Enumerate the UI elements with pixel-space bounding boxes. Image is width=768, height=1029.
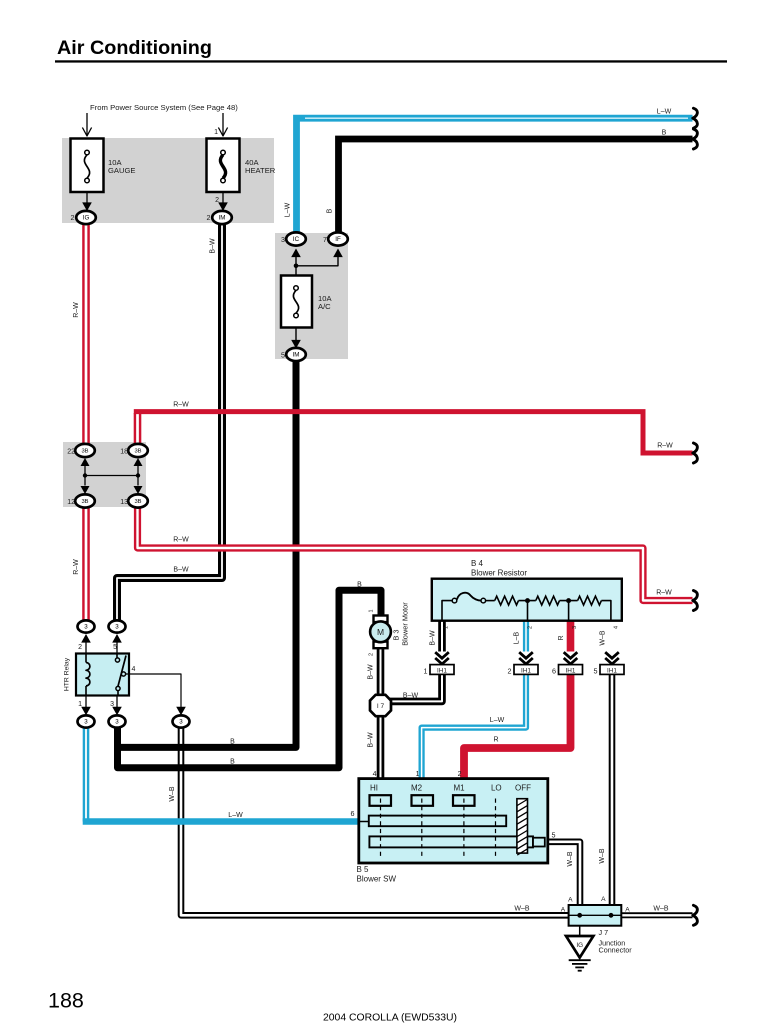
svg-text:2: 2 [369,653,375,656]
svg-text:IM: IM [293,352,300,359]
svg-text:2: 2 [215,197,219,204]
resistor internal circuit [442,601,452,621]
connector 2 IH1 with chevron [519,652,533,658]
svg-text:A: A [625,907,630,914]
svg-text:2: 2 [207,213,211,222]
svg-text:R: R [558,635,565,640]
fuse 40A HEATER [207,139,240,193]
connector oval 2 IG [76,211,96,224]
svg-text:13: 13 [120,499,128,506]
junction node below IC [294,264,299,269]
wire and arrow into connector IM of A/C fuse [295,328,297,341]
wire B thick: top from page brace to A/C fuse IF [339,139,693,232]
svg-text:6: 6 [351,809,355,818]
connector oval 7 IF [333,249,343,258]
svg-text:IH1: IH1 [521,667,531,674]
svg-text:B–W: B–W [430,630,437,646]
svg-text:OFF: OFF [515,784,531,793]
svg-text:IF: IF [335,236,341,243]
page brace L-W [693,108,698,128]
wire B-W I7 down to blower SW pin4 (HI) [377,716,385,780]
wire B thick: relay pin3 to blower motor [118,590,382,768]
wire W-B from J7 to right page brace [621,912,692,918]
svg-text:6: 6 [552,666,556,675]
svg-text:W–B: W–B [169,786,176,802]
page brace R-W upper [693,443,698,463]
svg-text:R–W: R–W [73,302,80,318]
connector oval 12 3B [75,494,95,507]
svg-text:B: B [357,582,362,589]
svg-text:B 5: B 5 [357,865,370,874]
svg-text:Blower SW: Blower SW [357,875,397,884]
page brace R-W lower [693,591,698,611]
svg-text:2: 2 [71,213,75,222]
svg-text:L–W: L–W [657,109,672,116]
svg-text:12: 12 [67,499,75,506]
svg-text:R–W: R–W [173,537,189,544]
svg-text:L–W: L–W [228,812,243,819]
svg-text:7: 7 [323,235,327,244]
svg-text:L–W: L–W [285,202,292,217]
fuse 10A GAUGE [71,139,104,193]
blower SW contacts [370,795,392,806]
svg-text:IH1: IH1 [566,667,576,674]
gray block: connector 3B block [63,442,146,507]
svg-text:HTR Relay: HTR Relay [64,657,71,691]
wire L-W cyan: IH1-2 down-left-down to blower SW pin1 (M2) [422,674,526,779]
svg-text:3: 3 [179,719,183,726]
gray block: power source fuse box [62,138,274,223]
svg-text:188: 188 [48,989,84,1013]
svg-text:R–W: R–W [657,443,673,450]
connector 1 IH1 with chevron [435,652,449,658]
svg-text:W–B: W–B [599,848,606,864]
connector oval 3 IC [291,249,301,258]
connector oval 2 IM [212,211,232,224]
svg-text:22: 22 [67,448,75,455]
svg-text:5: 5 [594,666,598,675]
svg-text:3: 3 [84,719,88,726]
wire L-B cyan: blower resistor pin2 to IH1-2 chevron [523,621,529,652]
svg-text:IC: IC [293,236,300,243]
wire pin 2 and arrow into connector IM [222,192,224,203]
relay pin4 wire to connector oval 3 [126,674,181,707]
wire B-W blower motor to I7 [377,648,385,696]
svg-text:J 7: J 7 [599,928,609,937]
svg-text:3: 3 [281,235,285,244]
svg-text:3B: 3B [134,449,141,455]
junction connector I 7 octagon [370,695,391,716]
svg-text:IG: IG [83,215,90,222]
svg-text:2: 2 [458,771,462,778]
relay pin3 wire and oval [116,696,118,708]
svg-text:M2: M2 [411,784,423,793]
wire R-W red: connector 3B-12 down to relay pin2 [82,508,90,621]
svg-text:4: 4 [132,666,136,673]
wire L-W cyan: relay pin1 down and right to blower SW pin6 [83,726,90,822]
svg-text:W–B: W–B [567,851,574,867]
svg-text:3: 3 [84,624,88,631]
svg-text:L–W: L–W [490,717,505,724]
svg-text:2: 2 [528,626,534,629]
relay switch contact [116,654,118,658]
wire W-B from blower resistor pin4 via IH1-5 down to J7 [609,674,616,915]
svg-text:B: B [230,759,235,766]
relay pin1 wire and oval [85,696,87,708]
wire R red: blower resistor pin3 to IH1-6 chevron [567,621,575,652]
svg-text:R–W: R–W [656,590,672,597]
wire R-W red stub below 3B-13 and horizontal lower to right page brace [138,508,693,601]
svg-text:R: R [493,737,498,744]
svg-text:Blower Resistor: Blower Resistor [471,569,527,578]
wire B-W blower resistor pin1 down to IH1-1 chevron [438,621,446,652]
wire R-W red: fuse GAUGE (IG) down to connector 3B-22 [82,224,90,444]
svg-text:B–W: B–W [403,693,419,700]
svg-text:4: 4 [614,626,620,629]
wire W-B from HTR relay pin4 to J7 (junction connector) [181,726,569,915]
svg-text:B–W: B–W [173,567,189,574]
svg-text:A: A [601,896,606,903]
svg-text:R–W: R–W [173,402,189,409]
svg-text:1: 1 [444,626,450,629]
svg-text:W–B: W–B [514,906,530,913]
ground symbol [569,959,591,961]
svg-text:W–B: W–B [600,630,607,646]
svg-text:3: 3 [115,719,119,726]
blower SW pin5 stub [533,838,545,847]
svg-text:L–B: L–B [514,631,521,644]
connector 5 IH1 with chevron [605,652,619,658]
wire W-B from blower SW pin5 to J7 [548,842,580,916]
svg-text:A: A [561,907,566,914]
svg-text:M1: M1 [453,784,465,793]
svg-text:1: 1 [416,771,420,778]
svg-text:GAUGE: GAUGE [108,166,135,175]
svg-text:Connector: Connector [599,946,633,955]
svg-text:3B: 3B [81,499,88,505]
arrow from power source into fuse GAUGE [86,113,88,136]
wire B-W from fuse HEATER (IM) down-left to HTR relay pin5 [117,224,222,620]
svg-text:IH1: IH1 [437,667,447,674]
junction connector J 7 box [569,905,622,926]
svg-text:B: B [662,130,667,137]
page brace B [693,129,698,149]
svg-text:2004 COROLLA (EWD533U): 2004 COROLLA (EWD533U) [323,1013,457,1024]
svg-text:5: 5 [281,351,285,360]
svg-text:HEATER: HEATER [245,166,276,175]
svg-text:W–B: W–B [653,906,669,913]
svg-text:B–W: B–W [367,732,374,748]
svg-text:B: B [230,739,235,746]
svg-text:A/C: A/C [318,302,331,311]
connector 6 IH1 with chevron [564,652,578,658]
svg-text:From Power Source System (See: From Power Source System (See Page 48) [90,103,238,112]
wire B-W I7 right and up to IH1-1 [390,674,442,701]
svg-text:B 3: B 3 [392,629,401,640]
svg-text:R–W: R–W [73,559,80,575]
svg-text:Blower Motor: Blower Motor [401,602,410,646]
blower SW dashed position lines [380,799,382,857]
svg-text:4: 4 [373,771,377,778]
svg-text:A: A [568,897,573,904]
wire and arrow into connector IG [86,192,88,203]
connector oval 3 above relay pin2 [81,634,91,643]
relay coil [85,654,87,663]
svg-text:2: 2 [78,644,82,651]
svg-text:1: 1 [424,666,428,675]
component B 3 Blower Motor [374,616,388,623]
svg-text:3: 3 [572,626,578,629]
svg-text:LO: LO [491,784,502,793]
blower SW OFF hatched block [517,799,528,853]
connector oval 3 above relay pin5 [112,634,122,643]
wire B thick: from A/C fuse IM down and left to relay pin3 [118,361,297,747]
svg-text:B 4: B 4 [471,559,484,568]
svg-text:M: M [377,627,384,637]
svg-text:3: 3 [115,624,119,631]
wire L-W cyan: top from A/C fuse IC to right page brace [297,118,693,232]
connector oval 22 3B [75,444,95,457]
svg-text:IH1: IH1 [607,667,617,674]
svg-text:3B: 3B [81,449,88,455]
svg-text:2: 2 [508,666,512,675]
relay HTR Relay box [76,654,129,696]
svg-text:IG: IG [576,942,583,949]
svg-text:B–W: B–W [210,238,217,254]
svg-text:1: 1 [369,609,375,612]
gray block: A/C fuse box [275,233,348,359]
svg-text:5: 5 [113,644,117,651]
svg-text:18: 18 [120,448,128,455]
svg-text:B–W: B–W [367,664,374,680]
svg-text:5: 5 [552,831,556,840]
blower SW slider bars [369,816,506,827]
svg-text:3B: 3B [134,499,141,505]
connector oval 13 3B [128,494,148,507]
svg-text:1: 1 [214,129,218,136]
svg-text:IM: IM [219,215,226,222]
wire R-W red stub above 3B-18 [134,413,142,444]
connector oval 18 3B [128,444,148,457]
connector oval 5 IM [286,348,306,361]
wire R red: IH1-6 down-left-down to blower SW pin2 (M1) [464,674,571,779]
wire R-W red horizontal upper to right page brace [134,412,693,453]
page brace W-B [693,905,698,925]
fuse 10A A/C [281,276,312,328]
connector 3B internal links [84,466,86,486]
svg-text:HI: HI [370,784,378,793]
svg-text:B: B [327,208,334,213]
ground IG triangle [579,926,581,937]
title underline rule [55,60,727,62]
svg-text:I 7: I 7 [377,703,385,710]
svg-text:Air Conditioning: Air Conditioning [57,37,212,59]
